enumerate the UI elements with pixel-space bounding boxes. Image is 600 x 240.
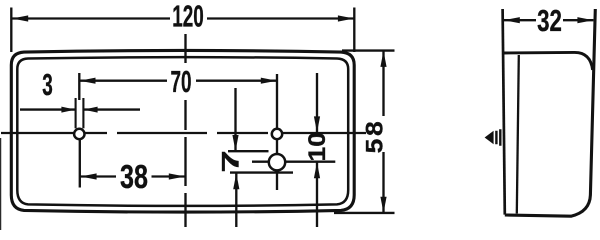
mounting stud symbol [485, 131, 494, 144]
extension line 3 left tangent [75, 98, 77, 128]
leader line 7 lower [235, 173, 237, 227]
svg-text:7: 7 [217, 150, 244, 172]
dimension line 58 [382, 51, 384, 213]
reference line 10 lower [252, 161, 335, 163]
arrowhead 32 left [504, 17, 520, 23]
leader line 10 lower [316, 162, 318, 227]
svg-text:70: 70 [170, 66, 191, 100]
arrowhead 120 left [12, 15, 28, 21]
mounting hole left [74, 129, 84, 139]
extension line 120 right [353, 8, 355, 53]
arrowhead 3 pointing right [61, 107, 75, 113]
extension line 58 bottom [334, 212, 395, 214]
cable entry circle [269, 154, 285, 170]
side view top edge [503, 52, 592, 70]
extension line 3 right tangent [82, 98, 84, 128]
extension line 70 left [78, 73, 80, 100]
extension line 120 left [10, 8, 12, 53]
scan artifact left border [0, 138, 2, 230]
arrowhead 10 down [314, 116, 320, 132]
arrowhead 10 up [314, 162, 320, 178]
arrowhead 58 down [380, 197, 386, 213]
svg-text:58: 58 [361, 119, 388, 154]
side view left edge [503, 9, 505, 215]
tangent line 7 top [228, 150, 269, 152]
arrowhead 3 pointing left [84, 107, 98, 113]
arrowhead 38 left [81, 173, 97, 179]
side view right edge [505, 9, 596, 216]
arrowhead 70 right [261, 78, 277, 84]
arrowhead 70 left [80, 78, 96, 84]
dimension line 38 [80, 175, 184, 177]
arrowhead 7 up [233, 173, 239, 189]
horizontal centerline [1, 132, 366, 134]
dimension line 3 left [20, 108, 75, 110]
extension line 58 top [342, 49, 395, 51]
mounting hole right [272, 129, 282, 139]
arrowhead 58 up [380, 51, 386, 67]
svg-text:38: 38 [120, 159, 148, 196]
svg-text:10: 10 [304, 132, 331, 161]
extension line 70 right / hole axis [276, 74, 278, 190]
arrowhead 32 right [577, 17, 593, 23]
hole left axis below [79, 139, 81, 188]
svg-text:120: 120 [172, 0, 204, 34]
front view outer contour [11, 50, 354, 212]
arrowhead 7 down [232, 135, 238, 151]
vertical centerline [184, 34, 186, 227]
svg-text:32: 32 [537, 4, 562, 38]
dimension line 3 right [84, 108, 140, 110]
arrowhead 120 right [338, 15, 354, 21]
side view inner line [517, 55, 519, 214]
dimension line 70 [80, 80, 277, 82]
svg-text:3: 3 [42, 69, 53, 103]
tangent line 7 bottom [230, 171, 293, 173]
front view inner contour [17, 57, 348, 206]
dimension line 32 [504, 19, 594, 21]
dimension line 120 [12, 17, 354, 19]
arrowhead 38 right [169, 173, 185, 179]
leader line 10 upper [316, 73, 318, 132]
leader line 7 upper [234, 88, 236, 151]
